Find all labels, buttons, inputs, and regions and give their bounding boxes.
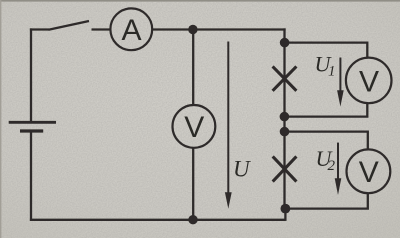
- switch S1 blade: [49, 21, 90, 30]
- svg-text:U: U: [233, 157, 251, 182]
- wire top left segment: [30, 28, 49, 30]
- battery GB1 negative plate: [20, 129, 43, 132]
- lamp E2 cross stroke 2: [273, 156, 297, 181]
- ammeter A1 body: [110, 8, 152, 50]
- wire V1 loop bottom: [284, 103, 367, 117]
- wire lamp-chain vertical: [283, 28, 285, 209]
- node junction bottom (V branch tap): [188, 215, 197, 224]
- node junction top (V branch tap): [188, 25, 197, 34]
- arrow U shaft: [227, 42, 229, 195]
- svg-text:A: A: [121, 14, 141, 47]
- arrow U head: [225, 192, 232, 209]
- wire V1 loop top: [285, 43, 368, 58]
- lamp E1 cross stroke 1: [273, 66, 297, 90]
- node V2 loop top tap: [280, 127, 290, 137]
- node V1 loop bottom tap: [280, 112, 290, 122]
- wire top middle (ammeter to right corner): [152, 28, 285, 30]
- node V1 loop top tap: [280, 38, 290, 48]
- wire voltmeter V branch lower: [192, 148, 194, 220]
- wire voltmeter V branch upper: [192, 30, 194, 106]
- switch S1 right stub: [92, 28, 111, 30]
- arrow U2 head: [335, 178, 342, 195]
- wire V2 loop top: [285, 132, 368, 150]
- voltmeter V1 body: [346, 58, 392, 104]
- voltmeter V2 body: [347, 149, 391, 193]
- arrow U2 shaft: [337, 143, 339, 180]
- arrow U1 shaft: [339, 58, 341, 93]
- wire V2 loop bottom: [285, 193, 368, 209]
- lamp E2 cross stroke 1: [273, 156, 297, 181]
- battery GB1 positive plate: [9, 121, 56, 124]
- wire left vertical upper (battery top lead): [30, 28, 32, 121]
- voltmeter V body: [173, 105, 216, 148]
- svg-text:V: V: [184, 111, 204, 144]
- left edge shadow line: [0, 0, 1, 238]
- node V2 loop bottom tap: [281, 204, 291, 214]
- svg-text:V: V: [359, 65, 379, 98]
- arrow U1 head: [337, 90, 344, 106]
- svg-text:V: V: [359, 156, 379, 189]
- wire bottom rail: [30, 219, 286, 221]
- lamp E1 cross stroke 2: [273, 66, 297, 90]
- wire left vertical lower (battery bottom lead): [30, 132, 32, 221]
- top edge shadow line: [0, 0, 400, 2]
- wire bottom right riser: [284, 209, 286, 221]
